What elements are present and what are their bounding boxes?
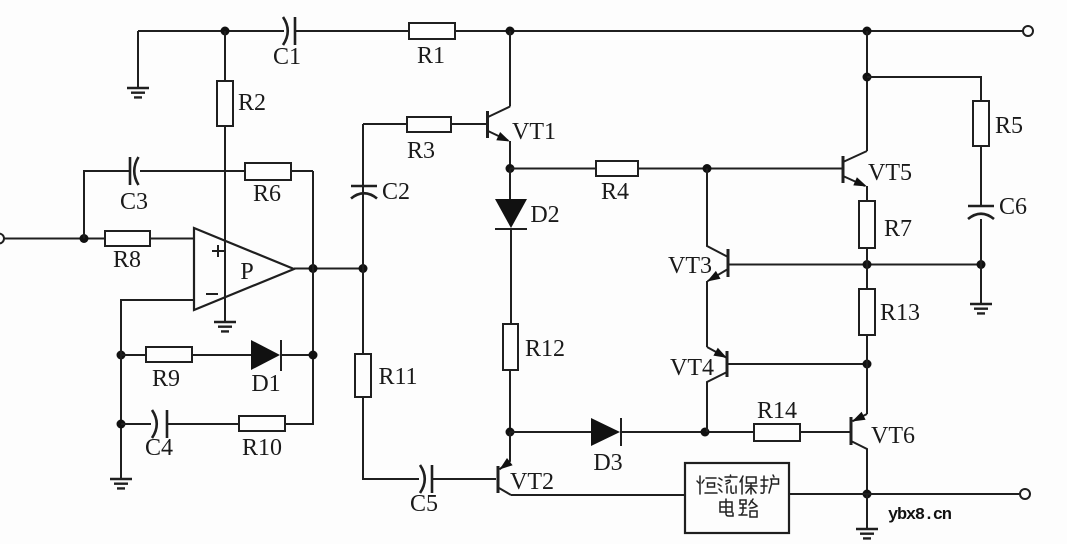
wire R4 to VT5 base [638, 168, 843, 170]
svg-text:C3: C3 [120, 189, 148, 215]
hanzi hu [761, 475, 779, 493]
wire D3 to R14 [621, 431, 754, 433]
node junction base row R7 [863, 260, 872, 269]
hanzi lu [739, 499, 757, 517]
resistor R8 [105, 231, 150, 273]
resistor R1 [409, 23, 455, 69]
ground bottom-right [856, 494, 878, 538]
diode D2 [495, 199, 560, 229]
wire D1 to junction [281, 354, 313, 356]
node junction VT4 base R13 [863, 360, 872, 369]
svg-text:R5: R5 [995, 113, 1023, 139]
svg-text:R1: R1 [417, 43, 445, 69]
wire output row right [867, 493, 1019, 495]
wire R11 column lower [362, 269, 364, 355]
wire left column [120, 300, 122, 478]
resistor R6 [245, 163, 291, 207]
svg-text:VT5: VT5 [868, 160, 912, 186]
wire R2 column lower through op-amp [224, 126, 226, 321]
transistor Q3 VT3 [668, 169, 728, 348]
capacitor C6 [968, 194, 1027, 220]
wire C3 to R6 [140, 170, 245, 172]
capacitor C3 [120, 157, 148, 215]
ground under op-amp [214, 322, 236, 331]
ground under C6 [970, 304, 992, 313]
wire VT2 collector row [511, 494, 685, 496]
diode D1 [251, 340, 281, 397]
wire input riser to C3 row [84, 171, 129, 239]
svg-text:R4: R4 [601, 179, 629, 205]
wire R9 to D1 [192, 354, 251, 356]
transistor Q4 VT4 [670, 347, 867, 432]
svg-text:C2: C2 [382, 179, 410, 205]
capacitor C4 [145, 410, 173, 461]
wire top right branch to R5 [867, 77, 981, 101]
ground top-left [127, 31, 149, 97]
svg-text:C4: C4 [145, 435, 173, 461]
hanzi bao [740, 476, 757, 494]
capacitor C1 [273, 17, 301, 70]
node junction top right branch [863, 73, 872, 82]
node output junction 2 [359, 264, 368, 273]
node junction D3 row left [506, 428, 515, 437]
svg-text:R6: R6 [253, 181, 281, 207]
svg-text:VT1: VT1 [512, 119, 556, 145]
svg-text:D1: D1 [251, 371, 280, 397]
resistor R5 [973, 101, 1023, 146]
hanzi dian [720, 499, 733, 516]
transistor Q5 VT5 [843, 31, 912, 201]
transistor Q2 VT2 [498, 432, 554, 495]
resistor R14 [754, 398, 800, 441]
svg-text:D3: D3 [593, 450, 622, 476]
wire R12 to D3 row [509, 370, 511, 432]
wire R7 to R13 [866, 248, 868, 289]
wire op-amp output [294, 268, 363, 270]
svg-text:R2: R2 [238, 90, 266, 116]
wire R2 column upper [224, 31, 226, 81]
resistor R13 [859, 289, 920, 335]
wire R3 row left [363, 123, 407, 125]
wire R4 row [510, 168, 596, 170]
svg-text:ybx8.cn: ybx8.cn [888, 506, 952, 525]
hanzi heng [697, 476, 717, 494]
svg-text:R13: R13 [880, 300, 920, 326]
node junction D3-R14-VT4 [701, 428, 710, 437]
svg-text:C6: C6 [999, 194, 1027, 220]
svg-text:VT6: VT6 [871, 423, 915, 449]
wire input [4, 238, 105, 240]
wire protection box to output [789, 493, 867, 495]
node junction top rail at VT5 collector [863, 27, 872, 36]
wire C4 row left [121, 423, 151, 425]
watermark ybx8.cn [888, 506, 952, 525]
wire R11 to C5 [363, 397, 419, 479]
svg-text:R10: R10 [242, 435, 282, 461]
wire top rail left [138, 30, 284, 32]
svg-text:D2: D2 [530, 202, 559, 228]
svg-text:R11: R11 [378, 364, 417, 390]
svg-text:R3: R3 [407, 138, 435, 164]
transistor Q6 VT6 [851, 412, 915, 494]
svg-text:R8: R8 [113, 247, 141, 273]
wire op-amp minus input [121, 300, 194, 355]
node junction input [80, 234, 89, 243]
terminal bottom-right [1020, 489, 1030, 499]
svg-text:VT2: VT2 [510, 469, 554, 495]
capacitor C5 [410, 465, 438, 517]
wire R8 to op-amp plus input [150, 238, 194, 240]
node junction output row [863, 490, 872, 499]
wire D3 row [510, 431, 591, 433]
resistor R7 [859, 201, 912, 248]
wire top rail right [296, 30, 1023, 32]
svg-text:VT3: VT3 [668, 253, 712, 279]
terminal top-right [1023, 26, 1033, 36]
terminal input [0, 234, 4, 244]
wire R14 to VT6 base [800, 431, 850, 433]
resistor R11 [355, 354, 418, 397]
node junction base row C6 [977, 260, 986, 269]
box constant-current protection circuit [685, 463, 789, 533]
node output junction 1 [309, 264, 318, 273]
wire R6 to output column [291, 170, 313, 172]
svg-text:R14: R14 [757, 398, 797, 424]
svg-text:VT4: VT4 [670, 355, 714, 381]
transistor Q1 VT1 [488, 31, 557, 168]
wire VT3 base row [728, 264, 981, 266]
ground bottom-left [110, 479, 132, 488]
resistor R4 [596, 161, 638, 205]
diode D3 [591, 418, 623, 476]
svg-text:C5: C5 [410, 491, 438, 517]
svg-text:C1: C1 [273, 44, 301, 70]
node junction top rail at R2 [221, 27, 230, 36]
wire R13 to VT6 [866, 335, 868, 414]
node junction top rail at VT1 collector [506, 27, 515, 36]
node junction minus column at R9 [117, 351, 126, 360]
wire C6 to base row [980, 219, 982, 303]
node junction VT3 collector column [703, 164, 712, 173]
resistor R2 [217, 81, 266, 126]
capacitor C2 [351, 179, 410, 205]
svg-text:R12: R12 [525, 336, 565, 362]
node junction C4 row [117, 420, 126, 429]
svg-text:R7: R7 [884, 216, 912, 242]
wire R9 row left [121, 354, 146, 356]
resistor R3 [407, 117, 451, 164]
svg-text:P: P [240, 259, 253, 285]
wire R5 to C6 [980, 146, 982, 206]
resistor R9 [146, 347, 192, 392]
wire C2-R11 column top [362, 124, 364, 269]
resistor R12 [503, 324, 565, 370]
svg-text:R9: R9 [152, 366, 180, 392]
resistor R10 [239, 416, 285, 461]
wire C4 to R10 [168, 423, 239, 425]
node junction VT1 emitter [506, 164, 515, 173]
node junction D1 output column [309, 351, 318, 360]
wire feedback column x313 [285, 171, 313, 424]
wire R3 to VT1 base [451, 123, 487, 125]
op-amp U1 P [194, 228, 294, 310]
wire D2 column [510, 169, 511, 325]
wire C5 to VT2 base [433, 478, 496, 480]
hanzi liu [718, 475, 737, 493]
